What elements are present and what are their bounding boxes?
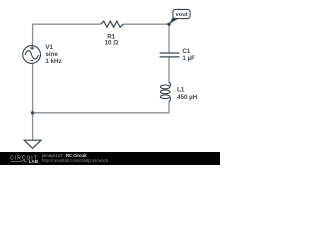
CircuitLab logo — [10, 156, 39, 165]
svg-text:10 Ω: 10 Ω — [105, 40, 119, 47]
svg-text:V1: V1 — [45, 44, 53, 51]
voltage source V1 — [23, 46, 41, 64]
ground — [24, 140, 41, 148]
wire vout node to C1 — [168, 24, 170, 52]
wire V1 to R1 — [33, 24, 101, 46]
capacitor C1 — [160, 53, 180, 57]
wire V1 to ground node — [32, 63, 34, 113]
junction ground node — [31, 111, 34, 114]
inductor L1 — [160, 82, 170, 101]
svg-text:1 µF: 1 µF — [182, 55, 195, 62]
svg-text:vout: vout — [176, 12, 188, 18]
svg-text:LAB: LAB — [29, 159, 39, 164]
wire C1 to L1 — [168, 57, 170, 83]
node vout flag — [169, 9, 190, 24]
node vout junction dot — [167, 23, 170, 26]
svg-text:1 kHz: 1 kHz — [45, 58, 61, 65]
wire ground node to ground symbol — [32, 113, 34, 140]
svg-text:http://circuitlab.com/c6u8j244: http://circuitlab.com/c6u8j244cwocb — [42, 158, 109, 163]
resistor R1 — [101, 21, 124, 27]
svg-text:450 µH: 450 µH — [177, 94, 198, 101]
footer bar — [0, 152, 220, 165]
svg-text:sine: sine — [45, 51, 58, 58]
svg-text:L1: L1 — [177, 87, 185, 94]
svg-text:C1: C1 — [182, 48, 190, 55]
wire L1 to ground node — [33, 101, 169, 113]
wire R1 to vout node — [123, 23, 169, 25]
